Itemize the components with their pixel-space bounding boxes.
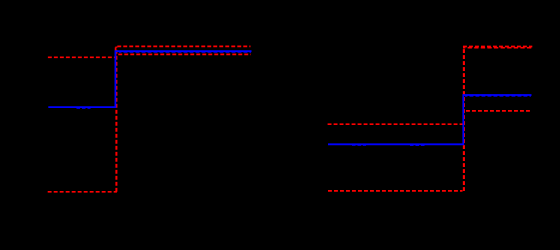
right plot: blue dashed median fringe under right segment bbox=[465, 95, 531, 97]
right plot: red dashed upper bound, segment before jump bbox=[328, 123, 465, 125]
right plot: red dashed lower bound, segment before jump bbox=[328, 190, 463, 192]
left plot: red dashed lower bound, segment before jump bbox=[48, 191, 117, 193]
left plot: red dashed upper bound, jump vertical bbox=[115, 46, 117, 57]
right plot: red dashed lower bound, segment after jump bbox=[466, 110, 530, 112]
left plot: blue solid posterior mean step bbox=[48, 51, 251, 107]
left plot: blue dashed median fringe under left segment bbox=[77, 107, 91, 109]
right plot: blue solid posterior mean step bbox=[328, 95, 532, 144]
left plot: red dashed lower bound, segment after jump bbox=[118, 53, 251, 55]
left plot: red dashed upper bound, segment after jump bbox=[117, 45, 250, 47]
left plot: red dashed upper bound, segment before jump bbox=[48, 56, 116, 58]
right plot: blue dashed median fringe under left segment bbox=[352, 144, 426, 146]
left plot: blue dashed median fringe under right segment bbox=[119, 51, 251, 53]
right plot: red dashed upper bound, segment after jump bbox=[463, 46, 532, 48]
right plot: red dashed true level after jump (overlapping pair) bbox=[463, 47, 532, 49]
left plot: red dashed lower bound, jump vertical bbox=[115, 47, 117, 192]
right plot: red dashed bounds jump vertical bbox=[463, 47, 465, 191]
